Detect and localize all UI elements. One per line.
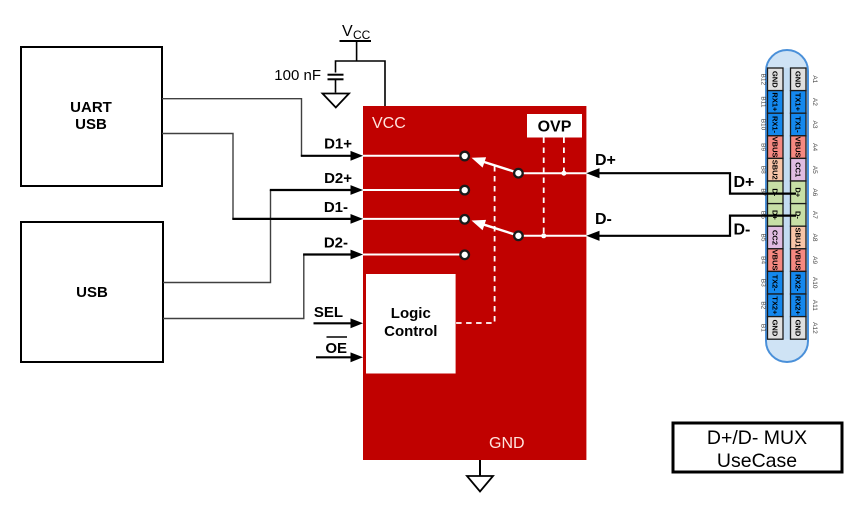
svg-text:TX1+: TX1+ xyxy=(794,93,803,112)
svg-text:D2+: D2+ xyxy=(324,170,352,187)
svg-text:OVP: OVP xyxy=(538,119,572,136)
svg-text:A3: A3 xyxy=(811,121,818,129)
switch common contact D+ xyxy=(514,169,523,178)
wire cap to ground xyxy=(335,80,337,93)
pin A-side A5 CC1 xyxy=(791,158,807,181)
wire USB to D2- xyxy=(163,255,304,319)
OE input (with overline) xyxy=(316,337,363,362)
svg-text:A1: A1 xyxy=(811,75,818,83)
svg-text:TX2+: TX2+ xyxy=(771,296,780,315)
svg-text:D+/D- MUX: D+/D- MUX xyxy=(707,427,807,449)
svg-text:B4: B4 xyxy=(760,256,767,264)
pin wire D2- xyxy=(303,235,363,260)
use case label box xyxy=(673,423,842,472)
svg-text:UART: UART xyxy=(70,99,112,116)
switch arm top (D+ to D1+) xyxy=(472,157,518,172)
svg-text:A5: A5 xyxy=(811,166,818,174)
pin A-side A9 VBUS xyxy=(791,249,807,272)
svg-text:A8: A8 xyxy=(811,234,818,242)
svg-text:A12: A12 xyxy=(811,322,818,334)
svg-text:B7: B7 xyxy=(760,188,767,196)
svg-text:A7: A7 xyxy=(811,211,818,219)
svg-text:B11: B11 xyxy=(760,96,767,107)
svg-text:A2: A2 xyxy=(811,98,818,106)
svg-text:SBU1: SBU1 xyxy=(794,227,803,247)
block USB xyxy=(21,222,163,362)
svg-text:USB: USB xyxy=(75,116,107,133)
pin B-side B12 GND xyxy=(768,68,784,91)
wire UART to D1+ xyxy=(162,99,302,156)
switch throw contact D2+ xyxy=(460,186,469,195)
svg-text:OE: OE xyxy=(325,340,347,357)
VCC supply symbol xyxy=(340,23,372,61)
svg-text:GND: GND xyxy=(794,320,803,337)
svg-text:RX1+: RX1+ xyxy=(771,92,780,112)
logic control box xyxy=(366,274,456,374)
svg-text:D-: D- xyxy=(595,211,612,228)
svg-text:CC2: CC2 xyxy=(771,230,780,245)
svg-text:B2: B2 xyxy=(760,301,767,309)
switch throw contact D2- xyxy=(460,251,469,260)
pin B-side B5 CC2 xyxy=(768,226,784,249)
internal wire D1- xyxy=(363,218,465,220)
svg-text:Logic: Logic xyxy=(391,305,431,322)
pin wire D2+ xyxy=(270,170,363,195)
svg-text:GND: GND xyxy=(771,320,780,337)
dashed control line switches to logic xyxy=(456,166,495,323)
switch common contact D- xyxy=(514,232,523,241)
svg-text:VBUS: VBUS xyxy=(794,250,803,271)
pin A-side A3 TX1- xyxy=(791,113,807,136)
wire VCC rail xyxy=(336,61,386,106)
ground (capacitor) xyxy=(323,94,350,108)
USB-C middle tongue xyxy=(783,68,791,339)
svg-text:D2-: D2- xyxy=(324,235,348,252)
svg-text:CC1: CC1 xyxy=(794,162,803,177)
svg-text:VCC: VCC xyxy=(372,115,406,132)
svg-text:RX2-: RX2- xyxy=(794,274,803,292)
pin B-side B8 SBU2 xyxy=(768,158,784,181)
dashed OVP to D- line xyxy=(543,138,545,236)
pin A-side A1 GND xyxy=(791,68,807,91)
pin B-side B9 VBUS xyxy=(768,136,784,159)
svg-text:GND: GND xyxy=(489,435,525,452)
pin A-side A2 TX1+ xyxy=(791,91,807,114)
USB-C receptacle outline xyxy=(766,50,808,362)
pin B-side B10 RX1- xyxy=(768,113,784,136)
pin A-side A12 GND xyxy=(791,317,807,340)
pin A-side A10 RX2- xyxy=(791,271,807,294)
svg-text:B9: B9 xyxy=(760,143,767,151)
pin B-side B6 D+ xyxy=(768,204,784,227)
junction dot OVP/D- xyxy=(541,233,546,238)
SEL input xyxy=(314,304,364,328)
red mux block xyxy=(363,106,586,460)
dashed OVP to D+ line xyxy=(563,138,565,174)
OVP box xyxy=(527,114,582,138)
ground (block) xyxy=(467,476,493,492)
internal wire D2+ xyxy=(363,189,465,191)
svg-text:B8: B8 xyxy=(760,166,767,174)
pin A-side A4 VBUS xyxy=(791,136,807,159)
svg-text:A9: A9 xyxy=(811,256,818,264)
internal wire D+ common xyxy=(518,172,586,174)
svg-text:SEL: SEL xyxy=(314,304,343,321)
pin B-side B11 RX1+ xyxy=(768,91,784,114)
GND pin wire xyxy=(479,460,481,476)
pin wire D1- xyxy=(232,199,363,224)
pin B-side B1 GND xyxy=(768,317,784,340)
pin B-side B3 TX2- xyxy=(768,271,784,294)
svg-text:VBUS: VBUS xyxy=(771,137,780,158)
svg-text:UseCase: UseCase xyxy=(717,450,797,472)
pin B-side B7 D- xyxy=(768,181,784,204)
svg-text:D+: D+ xyxy=(734,174,755,191)
svg-text:D+: D+ xyxy=(595,152,616,169)
svg-text:RX1-: RX1- xyxy=(771,116,780,134)
pin B-side B2 TX2+ xyxy=(768,294,784,317)
svg-text:GND: GND xyxy=(794,71,803,88)
svg-text:B10: B10 xyxy=(760,119,767,131)
svg-text:B1: B1 xyxy=(760,324,767,332)
wire USB to D2+ xyxy=(163,190,271,283)
svg-text:SBU2: SBU2 xyxy=(771,160,780,180)
svg-text:Control: Control xyxy=(384,323,437,340)
svg-text:D-: D- xyxy=(734,222,751,239)
internal wire D2- xyxy=(363,254,465,256)
pin A-side A7 D- xyxy=(791,204,807,227)
svg-text:TX2-: TX2- xyxy=(771,275,780,292)
svg-text:A4: A4 xyxy=(811,143,818,151)
block UART USB xyxy=(21,47,162,186)
pin A-side A8 SBU1 xyxy=(791,226,807,249)
pin wire D1+ xyxy=(301,136,363,161)
svg-text:V: V xyxy=(342,23,353,40)
svg-text:GND: GND xyxy=(771,71,780,88)
internal wire D1+ xyxy=(363,155,465,157)
svg-text:B5: B5 xyxy=(760,234,767,242)
svg-text:CC: CC xyxy=(353,28,371,42)
svg-text:B12: B12 xyxy=(760,74,767,86)
svg-text:VBUS: VBUS xyxy=(794,137,803,158)
internal wire D- common xyxy=(518,235,586,237)
pin B-side B4 VBUS xyxy=(768,249,784,272)
svg-text:A6: A6 xyxy=(811,188,818,196)
svg-text:A10: A10 xyxy=(811,277,818,289)
svg-text:A11: A11 xyxy=(811,300,818,311)
pin A-side A6 D+ xyxy=(791,181,807,204)
svg-text:D1+: D1+ xyxy=(324,136,352,153)
junction dot OVP/D+ xyxy=(561,171,566,176)
svg-text:B3: B3 xyxy=(760,279,767,287)
switch throw contact D1+ xyxy=(460,152,469,161)
switch arm bottom (D- to D1-) xyxy=(472,220,518,235)
svg-text:TX1-: TX1- xyxy=(794,116,803,133)
wire UART to D1- xyxy=(162,134,233,219)
svg-text:RX2+: RX2+ xyxy=(794,296,803,316)
D+ external wire xyxy=(586,152,796,194)
D- external wire xyxy=(586,211,796,241)
svg-text:D1-: D1- xyxy=(324,199,348,216)
svg-text:USB: USB xyxy=(76,284,108,301)
svg-text:100 nF: 100 nF xyxy=(274,67,321,84)
capacitor C 100 nF xyxy=(274,67,343,84)
svg-text:VBUS: VBUS xyxy=(771,250,780,271)
pin A-side A11 RX2+ xyxy=(791,294,807,317)
switch throw contact D1- xyxy=(460,215,469,224)
